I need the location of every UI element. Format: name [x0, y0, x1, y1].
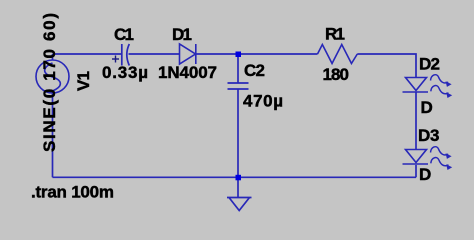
wire V1 bottom to bottom rail: [52, 93, 54, 177]
wire D2 to D3: [415, 92, 417, 150]
svg-text:0.33µ: 0.33µ: [102, 63, 148, 82]
svg-text:D2: D2: [419, 55, 440, 74]
capacitor C2: [228, 83, 249, 89]
wire bottom rail: [53, 176, 417, 178]
LED D3: [403, 150, 429, 165]
wire top from V1 to C1: [53, 53, 122, 55]
wire R1 to right corner and down to D2: [357, 54, 416, 78]
wire D1 to R1: [196, 53, 318, 55]
wire D3 to bottom rail: [415, 165, 417, 177]
C1 plus sign: [112, 56, 119, 63]
node junction at ground rail: [236, 175, 242, 181]
node junction at C2 top: [236, 52, 242, 58]
wire C1 to D1: [129, 53, 180, 55]
svg-text:C1: C1: [114, 25, 134, 44]
svg-text:D1: D1: [172, 25, 192, 44]
voltage source V1: [36, 60, 69, 93]
svg-text:C2: C2: [244, 61, 265, 80]
ground: [227, 198, 252, 211]
svg-text:.tran 100m: .tran 100m: [31, 183, 114, 202]
wire V1 top stub: [52, 54, 54, 60]
wire C2 bottom: [237, 89, 239, 177]
LED D3 arrows: [431, 147, 453, 170]
svg-text:R1: R1: [325, 25, 345, 44]
svg-text:SINE(0 170 60): SINE(0 170 60): [40, 13, 59, 152]
LED D2 arrows: [431, 75, 453, 98]
svg-text:V1: V1: [74, 71, 93, 91]
resistor R1: [318, 45, 358, 64]
diode D1: [180, 44, 196, 64]
wire ground stub: [237, 177, 239, 197]
LED D2: [403, 78, 429, 93]
svg-text:D: D: [419, 165, 431, 184]
svg-text:1N4007: 1N4007: [158, 63, 217, 82]
wire C2 top: [237, 54, 239, 83]
capacitor C1: [122, 44, 130, 66]
svg-text:D: D: [421, 98, 433, 117]
svg-text:180: 180: [323, 65, 350, 84]
svg-text:470µ: 470µ: [243, 92, 283, 111]
svg-text:D3: D3: [418, 126, 440, 145]
